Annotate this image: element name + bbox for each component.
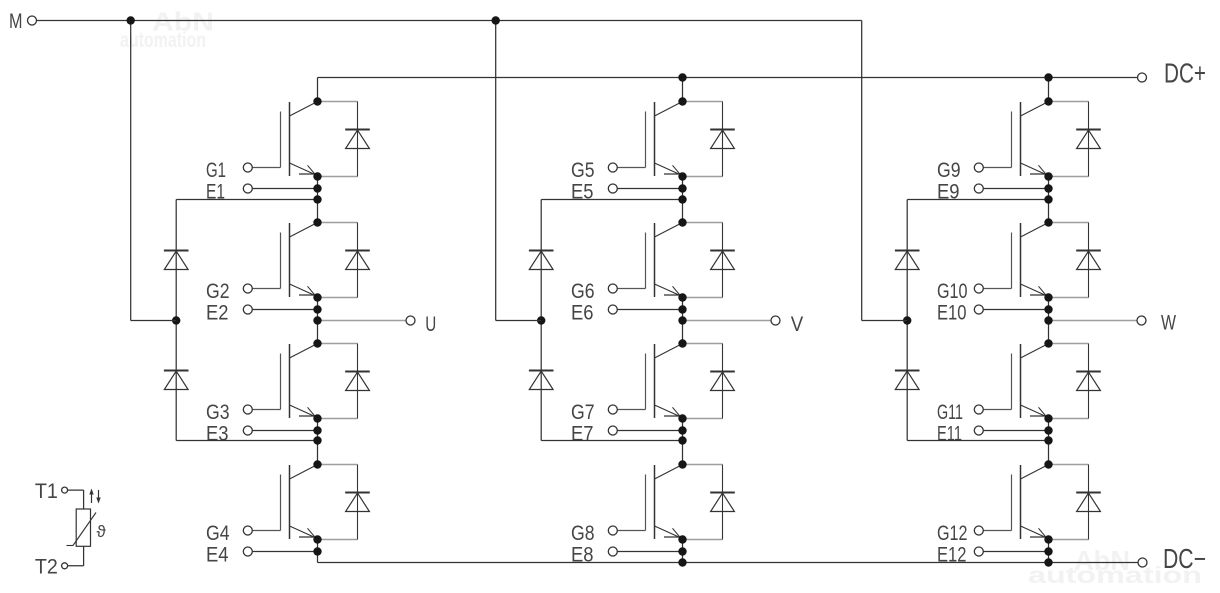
svg-text:DC−: DC− (1163, 543, 1206, 574)
svg-text:G2: G2 (206, 280, 230, 303)
svg-text:E11: E11 (937, 422, 962, 445)
svg-text:E6: E6 (571, 301, 594, 324)
svg-text:E7: E7 (571, 422, 594, 445)
svg-text:G11: G11 (937, 401, 963, 424)
svg-text:E4: E4 (206, 543, 229, 566)
svg-text:G10: G10 (937, 280, 968, 303)
svg-text:W: W (1161, 310, 1177, 334)
svg-text:G6: G6 (571, 280, 595, 303)
svg-text:automation: automation (120, 29, 206, 52)
svg-text:ϑ: ϑ (97, 522, 107, 541)
svg-text:E2: E2 (206, 301, 229, 324)
svg-text:U: U (425, 312, 436, 336)
svg-text:G4: G4 (206, 522, 230, 545)
svg-text:E10: E10 (937, 301, 967, 324)
svg-text:T2: T2 (35, 555, 58, 579)
svg-text:G8: G8 (571, 522, 595, 545)
svg-text:M: M (9, 9, 23, 33)
svg-text:T1: T1 (35, 479, 58, 503)
svg-text:G7: G7 (571, 401, 595, 424)
svg-text:G9: G9 (937, 159, 961, 182)
svg-text:DC+: DC+ (1164, 58, 1206, 89)
svg-text:G5: G5 (571, 159, 595, 182)
svg-text:G3: G3 (206, 401, 230, 424)
svg-text:G12: G12 (937, 522, 968, 545)
svg-text:E3: E3 (206, 422, 229, 445)
svg-text:V: V (791, 312, 804, 336)
svg-text:G1: G1 (206, 159, 226, 182)
